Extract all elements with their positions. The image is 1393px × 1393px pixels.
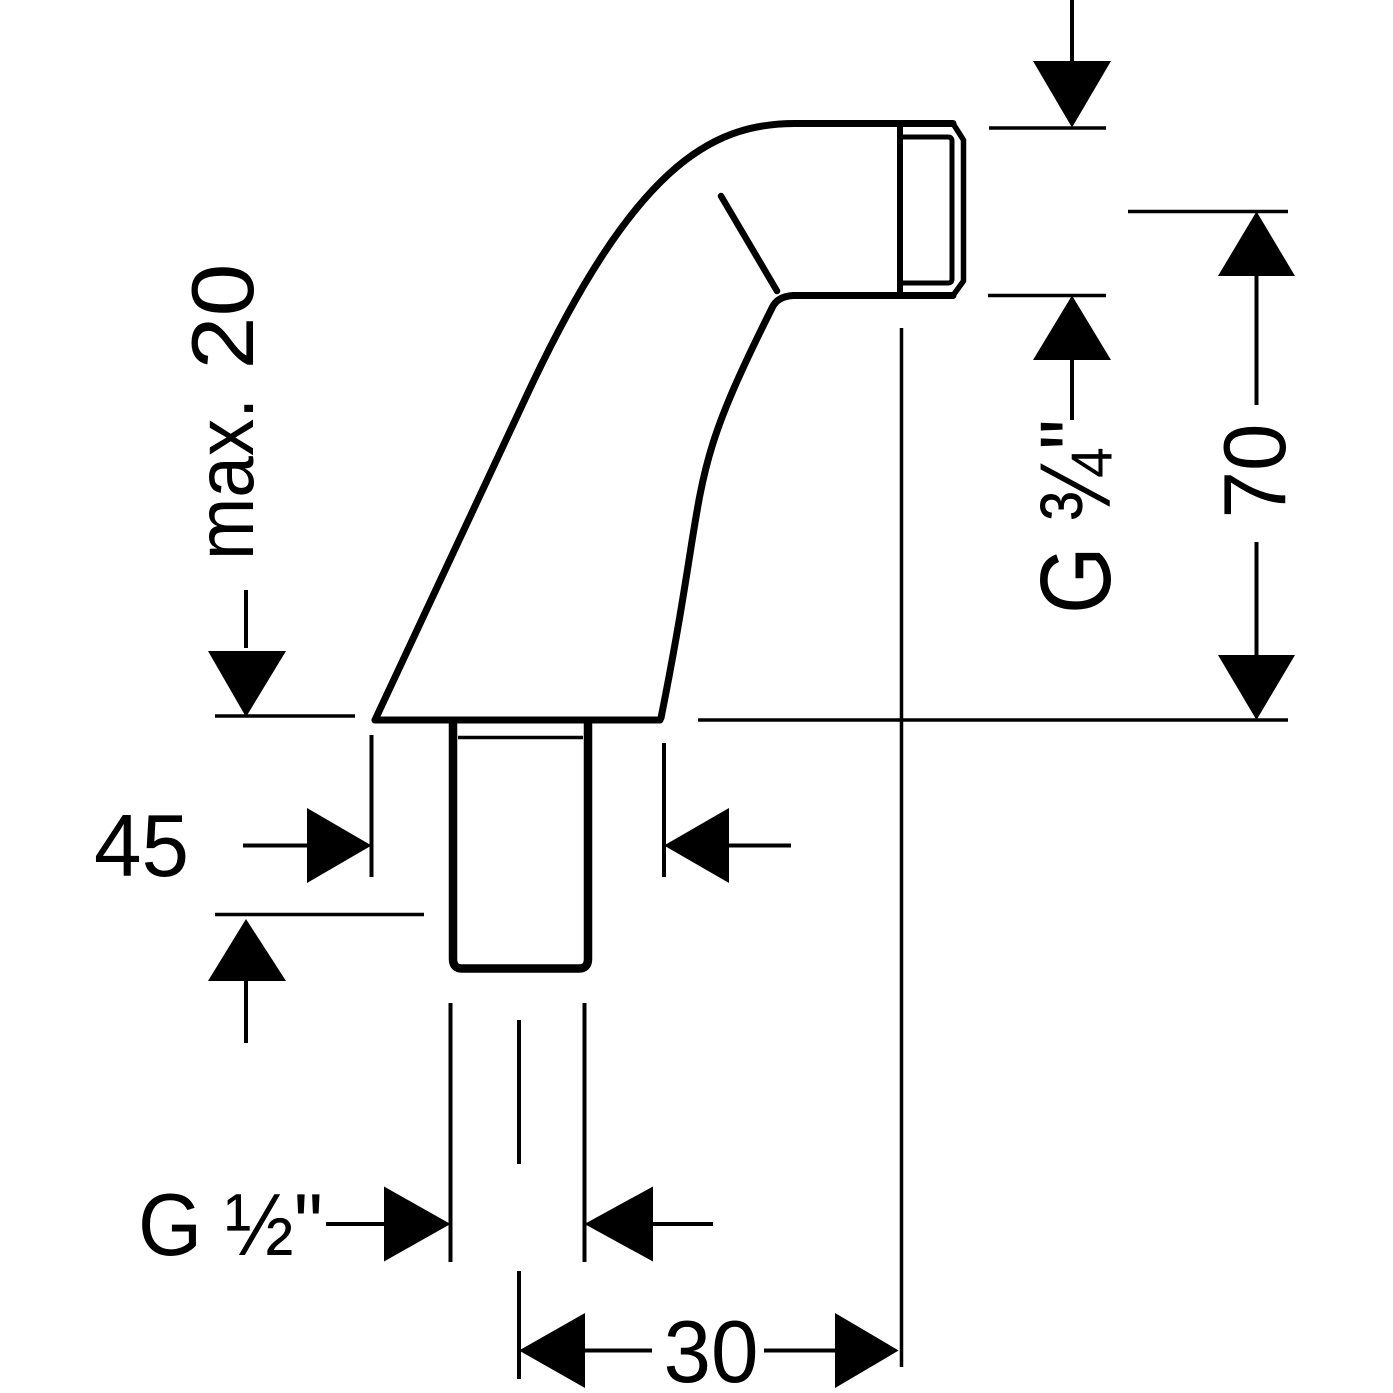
G1/2 right leader: [653, 1222, 713, 1226]
pipe thread relief thin line: [458, 736, 583, 740]
max.20 lower leader line: [244, 981, 248, 1043]
G3/4 up arrowhead: [1033, 296, 1111, 361]
G3/4 lower leader: [1070, 360, 1074, 420]
elbow body outline (left and top edge): [375, 124, 953, 721]
max.20 upper leader line: [244, 590, 248, 648]
elbow body base edge: [375, 717, 660, 724]
pipe centerline lower segment: [517, 1271, 521, 1379]
pipe G1/2 below base: [453, 719, 588, 969]
70 lower dim line: [1255, 542, 1259, 655]
max.20 down arrowhead: [208, 651, 286, 717]
G3/4 top leader from image edge: [1070, 0, 1074, 62]
45 left arrowhead pointing left: [664, 808, 729, 883]
45 extension line left: [370, 735, 374, 877]
G1/2 left leader: [326, 1222, 386, 1226]
pipe centerline upper segment: [517, 1020, 521, 1164]
pipe left extension line: [449, 1003, 453, 1262]
30 left leader: [585, 1349, 652, 1353]
svg-text:G ½": G ½": [138, 1175, 323, 1274]
base reference line left segment: [215, 714, 355, 718]
45 right arrowhead pointing right: [307, 808, 372, 883]
70 top tick line: [1128, 210, 1288, 214]
svg-text:70: 70: [1205, 424, 1304, 519]
70 up arrowhead: [1218, 212, 1295, 277]
elbow body right edge (neck bottom and curve to base): [661, 296, 953, 719]
svg-text:30: 30: [664, 1302, 759, 1393]
G1/2 left arrowhead pointing left: [585, 1187, 654, 1262]
G3/4 top tick line: [989, 126, 1106, 130]
connector flange vertical line: [897, 124, 903, 296]
svg-text:G ¾": G ¾": [1020, 419, 1132, 614]
thread G3/4 root inner lines: [903, 137, 952, 283]
thread G3/4 outer profile with chamfers: [953, 124, 964, 296]
G3/4 bottom tick line: [988, 294, 1106, 298]
45 extension line right: [662, 743, 666, 877]
G3/4 down arrowhead: [1033, 61, 1111, 128]
pipe right extension line: [583, 1003, 587, 1262]
max.20 up arrowhead: [208, 919, 286, 981]
extension line from connector face down to 30 dim: [900, 328, 904, 1367]
max.20 lower reference line: [215, 913, 424, 917]
45 right leader: [729, 844, 791, 848]
G1/2 right arrowhead pointing right: [384, 1187, 451, 1262]
svg-text:45: 45: [94, 796, 189, 895]
svg-text:20: 20: [173, 264, 272, 370]
svg-text:max.: max.: [180, 398, 271, 560]
30 right arrowhead pointing right: [835, 1313, 899, 1388]
45 left leader: [243, 844, 309, 848]
base reference line right segment: [698, 718, 1288, 722]
70 down arrowhead: [1218, 655, 1295, 720]
70 upper dim line: [1255, 276, 1259, 405]
30 right leader: [764, 1349, 835, 1353]
30 left arrowhead pointing left: [519, 1313, 585, 1388]
crease line between spout neck and body: [721, 196, 777, 291]
